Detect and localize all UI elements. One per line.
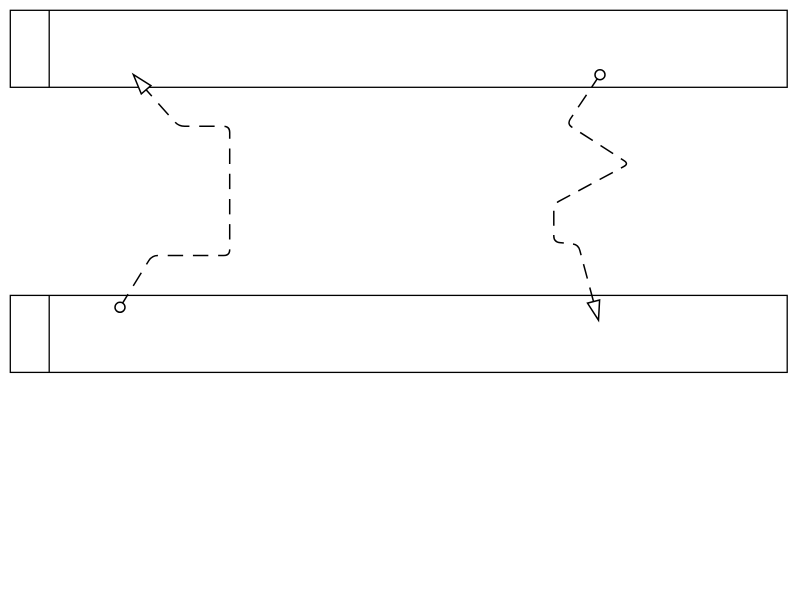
pool P1 (top horizontal pool) <box>10 10 787 87</box>
dashed connector E2 (from P1 down to P2), wire <box>554 75 627 302</box>
pool P1 title divider <box>48 10 50 87</box>
connector E1 open arrowhead <box>133 75 151 94</box>
dashed connector E1 (from P2 up to P1), wire <box>120 90 230 307</box>
connector E2 open arrowhead <box>588 300 600 320</box>
pool P2 (bottom horizontal pool) <box>10 295 787 372</box>
connector E1 start circle <box>115 302 125 312</box>
pool P2 title divider <box>48 295 50 372</box>
connector E2 start circle <box>595 70 605 80</box>
